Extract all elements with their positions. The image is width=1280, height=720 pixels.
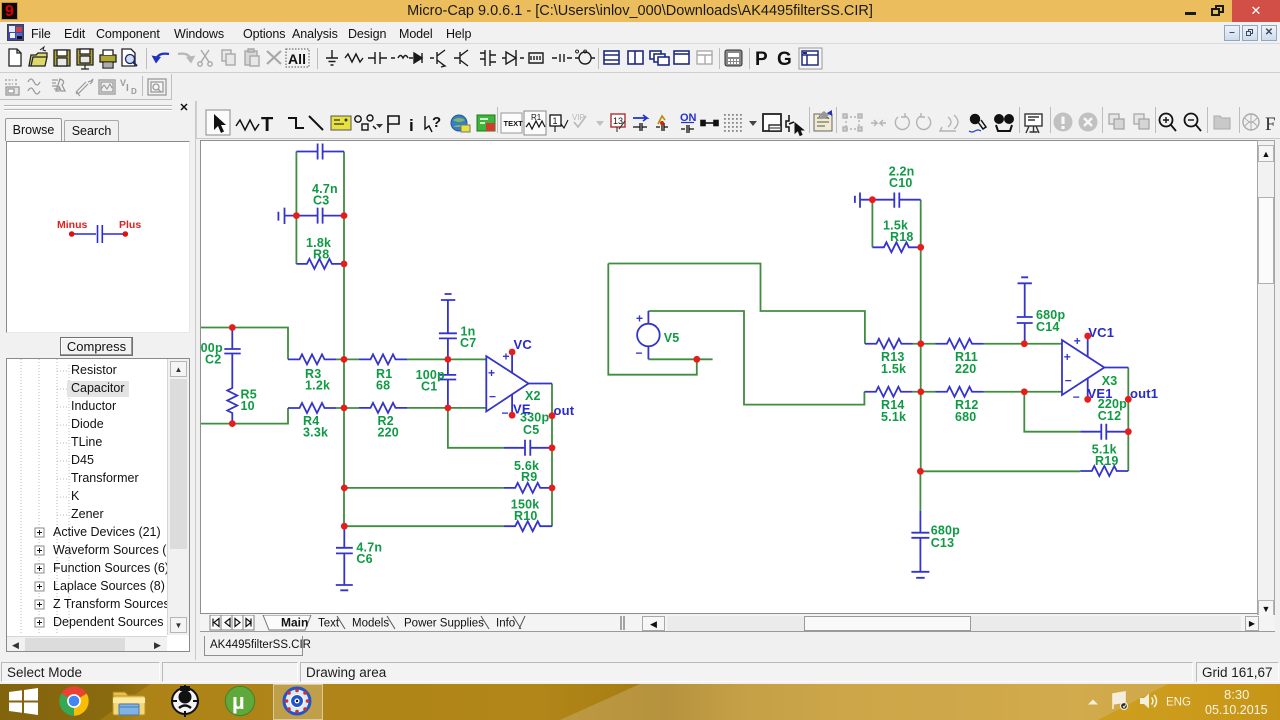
svg-text:Z Transform Sources (: Z Transform Sources ( bbox=[53, 597, 178, 611]
svg-text:8:30: 8:30 bbox=[1224, 687, 1249, 702]
svg-text:TLine: TLine bbox=[71, 435, 102, 449]
svg-text:VE1: VE1 bbox=[1088, 386, 1113, 401]
svg-text:D45: D45 bbox=[71, 453, 94, 467]
svg-text:1.2k: 1.2k bbox=[305, 378, 330, 392]
svg-text:220: 220 bbox=[378, 425, 399, 439]
svg-text:Dependent Sources (8: Dependent Sources (8 bbox=[53, 615, 178, 629]
svg-text:TEXT: TEXT bbox=[504, 119, 524, 128]
svg-text:05.10.2015: 05.10.2015 bbox=[1205, 703, 1268, 717]
svg-text:−: − bbox=[502, 406, 509, 420]
svg-text:C10: C10 bbox=[889, 176, 913, 190]
svg-text:1: 1 bbox=[553, 116, 558, 126]
svg-text:Diode: Diode bbox=[71, 417, 104, 431]
svg-text:Function Sources (6): Function Sources (6) bbox=[53, 561, 169, 575]
svg-text:D: D bbox=[131, 87, 137, 96]
svg-text:C6: C6 bbox=[356, 552, 372, 566]
svg-text:Waveform Sources (17: Waveform Sources (17 bbox=[53, 543, 180, 557]
svg-text:Info: Info bbox=[496, 618, 515, 630]
svg-text:K: K bbox=[71, 489, 80, 503]
svg-text:Inductor: Inductor bbox=[71, 399, 116, 413]
svg-text:ENG: ENG bbox=[1166, 697, 1191, 709]
svg-text:+: + bbox=[1074, 334, 1081, 348]
svg-text:out1: out1 bbox=[1130, 386, 1158, 401]
svg-text:out: out bbox=[554, 403, 575, 418]
svg-text:Capacitor: Capacitor bbox=[71, 381, 125, 395]
svg-text:µ: µ bbox=[232, 689, 245, 714]
svg-text:Power Supplies: Power Supplies bbox=[404, 618, 484, 630]
svg-text:All: All bbox=[288, 51, 306, 67]
svg-text:5.1k: 5.1k bbox=[881, 410, 906, 424]
svg-text:VE: VE bbox=[513, 402, 531, 417]
svg-text:Active Devices (21): Active Devices (21) bbox=[53, 525, 161, 539]
svg-text:C7: C7 bbox=[460, 336, 476, 350]
svg-text:R19: R19 bbox=[1095, 454, 1119, 468]
svg-text:VC: VC bbox=[514, 337, 533, 352]
svg-text:680: 680 bbox=[955, 410, 976, 424]
svg-text:?: ? bbox=[432, 114, 441, 131]
svg-text:I: I bbox=[126, 83, 129, 94]
svg-text:68: 68 bbox=[376, 378, 390, 392]
svg-text:R10: R10 bbox=[514, 509, 538, 523]
svg-text:T: T bbox=[261, 114, 273, 136]
svg-text:+: + bbox=[503, 350, 510, 364]
svg-text:R9: R9 bbox=[521, 470, 537, 484]
svg-text:R8: R8 bbox=[313, 248, 329, 262]
svg-text:C2: C2 bbox=[205, 353, 221, 367]
svg-text:Minus: Minus bbox=[57, 219, 87, 231]
svg-text:−: − bbox=[636, 346, 643, 360]
svg-text:Text: Text bbox=[318, 618, 340, 630]
svg-text:−: − bbox=[1065, 374, 1072, 388]
svg-text:Transformer: Transformer bbox=[71, 471, 139, 485]
svg-text:P: P bbox=[755, 49, 768, 70]
svg-text:220: 220 bbox=[955, 362, 976, 376]
svg-text:10: 10 bbox=[241, 399, 255, 413]
svg-text:C12: C12 bbox=[1098, 409, 1122, 423]
svg-text:+: + bbox=[1064, 350, 1071, 364]
svg-text:F: F bbox=[1265, 114, 1276, 135]
svg-text:R18: R18 bbox=[890, 230, 914, 244]
svg-text:+: + bbox=[488, 366, 495, 380]
svg-text:C1: C1 bbox=[421, 380, 437, 394]
svg-text:Laplace Sources (8): Laplace Sources (8) bbox=[53, 579, 165, 593]
svg-text:−: − bbox=[1073, 390, 1080, 404]
svg-text:−: − bbox=[489, 390, 496, 404]
svg-text:VC1: VC1 bbox=[1088, 325, 1114, 340]
svg-text:Models: Models bbox=[352, 618, 389, 630]
svg-text:13: 13 bbox=[613, 116, 623, 126]
svg-text:Resistor: Resistor bbox=[71, 363, 117, 377]
svg-text:3.3k: 3.3k bbox=[303, 425, 328, 439]
svg-text:C14: C14 bbox=[1036, 320, 1060, 334]
svg-text:V5: V5 bbox=[664, 331, 680, 345]
svg-text:Plus: Plus bbox=[119, 219, 141, 231]
svg-text:+: + bbox=[636, 312, 643, 326]
svg-text:G: G bbox=[777, 49, 792, 70]
svg-text:i: i bbox=[409, 116, 414, 135]
svg-text:Zener: Zener bbox=[71, 507, 104, 521]
svg-text:C13: C13 bbox=[931, 536, 955, 550]
svg-text:C3: C3 bbox=[313, 194, 329, 208]
svg-text:C5: C5 bbox=[523, 423, 539, 437]
svg-text:1.5k: 1.5k bbox=[881, 362, 906, 376]
svg-text:Main: Main bbox=[281, 616, 308, 630]
